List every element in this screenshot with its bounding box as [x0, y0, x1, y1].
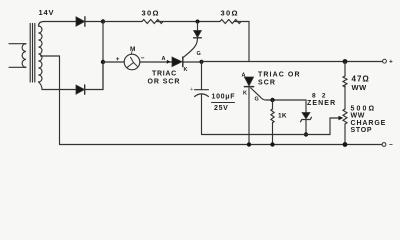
terminal minus: [382, 142, 393, 149]
wiper arrow into potentiometer: [339, 116, 344, 120]
wire top rail between resistors: [156, 21, 220, 23]
svg-text:WW: WW: [351, 113, 366, 120]
terminal plus: [383, 59, 394, 66]
svg-text:CHARGE: CHARGE: [351, 120, 387, 127]
svg-text:25V: 25V: [214, 105, 229, 112]
resistor R1 30ohm: [142, 9, 164, 24]
capacitor C1 100uF: [190, 62, 235, 135]
svg-text:K: K: [184, 67, 188, 73]
svg-text:A: A: [162, 56, 166, 62]
gate diode D3: [184, 22, 202, 58]
resistor R4 47ohm WW: [343, 62, 370, 93]
svg-text:+: +: [116, 56, 120, 63]
wire meter to SCR1: [140, 61, 172, 63]
node zener bottom junction: [304, 132, 308, 136]
wire wiper rail line1: [202, 118, 340, 135]
label TRIAC OR SCR for Q1: [148, 71, 181, 86]
svg-text:OR SCR: OR SCR: [148, 79, 181, 86]
label plus meter: [116, 56, 120, 63]
svg-text:1K: 1K: [278, 113, 287, 120]
wire top rail left: [44, 21, 76, 23]
wire gate SCR2: [251, 88, 306, 113]
resistor R2 30ohm: [220, 9, 241, 24]
label TRIAC OR SCR for Q2: [258, 72, 301, 87]
label A anode SCR2: [242, 73, 246, 79]
label G gate SCR1: [197, 51, 201, 57]
wire rectifier vertical bus: [102, 22, 104, 90]
node gate-divider junction: [196, 20, 200, 24]
transformer T1 secondary winding: [39, 22, 45, 90]
label K cathode SCR2: [243, 90, 247, 96]
svg-text:G: G: [197, 51, 201, 57]
svg-text:500Ω: 500Ω: [351, 105, 377, 112]
wire bottom rail: [60, 144, 383, 146]
svg-text:30Ω: 30Ω: [221, 9, 239, 18]
label A anode SCR1: [162, 56, 166, 62]
svg-text:TRIAC: TRIAC: [152, 71, 177, 78]
node top-left junction: [101, 19, 105, 23]
diode D1: [76, 17, 103, 26]
svg-text:K: K: [243, 90, 247, 96]
thyristor Q2 SCR: [244, 77, 253, 145]
current arrow on wire: [167, 60, 171, 64]
label K cathode SCR1: [184, 67, 188, 73]
label 14V: [39, 8, 55, 17]
wire meter lead left: [103, 61, 124, 63]
svg-text:SCR: SCR: [258, 80, 276, 87]
diode D2: [42, 62, 103, 94]
ammeter M1: [124, 46, 140, 70]
node bottom 1K junction: [270, 142, 274, 146]
node meter junction: [101, 60, 105, 64]
node bottom SCR2 junction: [247, 142, 251, 146]
svg-text:30Ω: 30Ω: [142, 9, 160, 18]
thyristor Q1 SCR: [172, 57, 202, 67]
potentiometer R5 500ohm WW: [343, 86, 386, 145]
svg-text:−: −: [389, 142, 393, 149]
svg-text:A: A: [242, 73, 246, 79]
zener diode Z1 8.2V: [301, 93, 337, 135]
wire center tap: [41, 56, 60, 145]
wire mid rail to plus terminal: [202, 61, 383, 63]
svg-text:100μF: 100μF: [212, 94, 236, 101]
svg-text:M: M: [130, 46, 136, 53]
svg-text:14V: 14V: [39, 8, 55, 17]
svg-text:−: −: [141, 55, 145, 62]
node SCR1 output junction: [199, 60, 203, 64]
svg-text:WW: WW: [352, 83, 368, 92]
label minus meter: [141, 55, 145, 62]
label G gate SCR2: [255, 97, 259, 103]
node mid rail right junction: [343, 59, 348, 64]
svg-text:+: +: [389, 59, 393, 66]
svg-text:TRIAC OR: TRIAC OR: [258, 72, 301, 79]
svg-text:ZENER: ZENER: [307, 100, 336, 107]
transformer T1 core: [30, 24, 35, 83]
node bottom right junction: [343, 142, 348, 147]
node gate junction: [270, 98, 274, 102]
transformer T1 primary winding: [9, 44, 26, 68]
svg-text:STOP: STOP: [351, 127, 373, 134]
svg-text:G: G: [255, 97, 259, 103]
svg-text:8 2: 8 2: [312, 93, 328, 100]
svg-text:+: +: [190, 87, 193, 93]
wire top rail right corner: [234, 22, 249, 62]
resistor R3 1K: [271, 100, 287, 145]
wire top rail to resistor R1: [103, 21, 142, 23]
